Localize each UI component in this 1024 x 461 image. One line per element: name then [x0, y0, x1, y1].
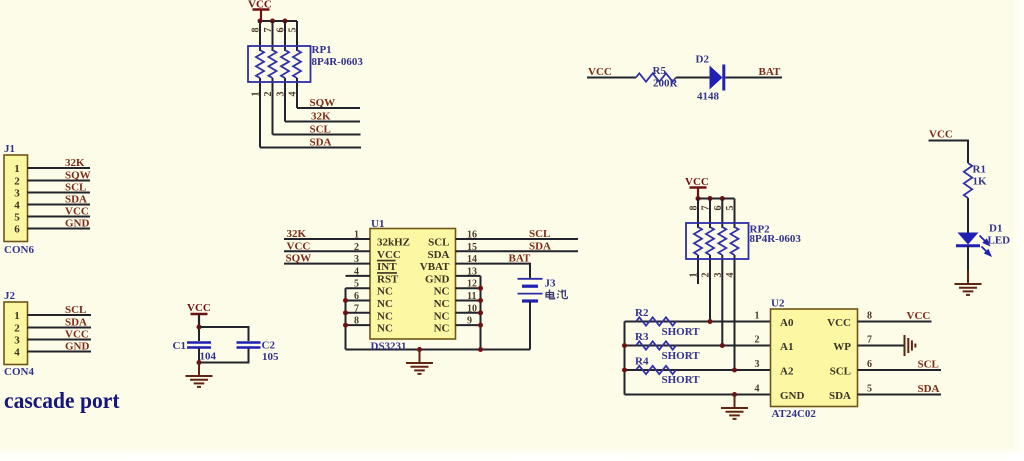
- wire R1 to D1: [967, 198, 969, 233]
- junction dot U2 ground attach: [732, 392, 737, 397]
- svg-text:BAT: BAT: [759, 66, 781, 78]
- wire U1 pin7: [346, 312, 371, 314]
- svg-text:SCL: SCL: [830, 366, 851, 378]
- svg-text:NC: NC: [377, 310, 393, 322]
- svg-text:NC: NC: [377, 323, 393, 335]
- svg-text:11: 11: [467, 291, 476, 302]
- svg-text:cascade port: cascade port: [4, 388, 120, 413]
- ground rotated (U2 WP): [905, 335, 916, 356]
- junction dot U1 bottom right bus: [478, 347, 483, 352]
- svg-text:6: 6: [713, 206, 724, 211]
- junction dots RP2 rail: [696, 196, 725, 201]
- svg-text:8P4R-0603: 8P4R-0603: [312, 56, 364, 68]
- resistor R2: [636, 317, 676, 325]
- svg-text:SDA: SDA: [529, 240, 551, 252]
- svg-text:7: 7: [263, 28, 274, 33]
- svg-text:VCC: VCC: [65, 329, 89, 341]
- svg-text:32K: 32K: [65, 157, 85, 169]
- svg-text:SDA: SDA: [829, 390, 851, 402]
- svg-text:RP1: RP1: [312, 44, 332, 56]
- resistor R4: [636, 366, 676, 374]
- svg-text:NC: NC: [434, 298, 450, 310]
- wire 32K (RP1): [285, 121, 360, 123]
- wire J2 pin2: [28, 327, 92, 329]
- white fade right edge: [1010, 0, 1024, 461]
- svg-text:NC: NC: [377, 286, 393, 298]
- svg-text:5: 5: [14, 212, 20, 224]
- IC U1 body: [370, 229, 456, 340]
- ground (D1): [955, 271, 982, 295]
- junction dots U1 right NC bus: [478, 286, 483, 328]
- svg-text:VBAT: VBAT: [420, 261, 450, 273]
- wire RP1 pin5 vertical: [296, 21, 298, 108]
- svg-text:7: 7: [354, 303, 359, 314]
- capacitor C2: [237, 343, 261, 348]
- svg-text:104: 104: [200, 351, 217, 363]
- wire U1 right NC bus vertical: [480, 276, 482, 350]
- connector J1 body: [4, 155, 28, 242]
- svg-text:SQW: SQW: [65, 170, 91, 182]
- battery J3: [518, 279, 543, 302]
- svg-text:DS3231: DS3231: [371, 341, 407, 353]
- svg-text:CON6: CON6: [4, 244, 34, 256]
- wire C1 top to C2 branch: [199, 327, 249, 341]
- wire VCC to R5: [587, 77, 636, 79]
- power port VCC (RP1): [248, 0, 272, 20]
- pin names U2 right column: [827, 317, 851, 402]
- wire U1 pin9: [456, 324, 481, 326]
- wire U1 pin12: [456, 287, 481, 289]
- svg-text:32K: 32K: [287, 228, 307, 240]
- svg-text:SHORT: SHORT: [662, 326, 701, 338]
- junction dot RP2 pin6 to R3 row: [720, 343, 725, 348]
- svg-text:14: 14: [467, 254, 477, 265]
- wire J2 pin4: [28, 351, 92, 353]
- svg-text:4: 4: [288, 92, 299, 97]
- wire RP1 pin8 vertical: [259, 21, 261, 148]
- svg-text:R5: R5: [653, 65, 667, 77]
- svg-text:8: 8: [867, 311, 872, 322]
- svg-text:4148: 4148: [697, 91, 720, 103]
- wire J1 pin2: [28, 180, 91, 182]
- svg-text:VCC: VCC: [929, 129, 953, 141]
- pin numbers RP2 bottom 1 2 3 4: [689, 273, 737, 278]
- svg-text:R3: R3: [635, 331, 649, 343]
- wire J2 pin3: [28, 339, 92, 341]
- wire RP2 pin5 vertical: [734, 199, 736, 371]
- svg-text:VCC: VCC: [827, 317, 851, 329]
- svg-text:6: 6: [276, 28, 287, 33]
- svg-text:2: 2: [14, 176, 20, 188]
- svg-text:J3: J3: [545, 278, 557, 290]
- svg-text:8: 8: [689, 206, 700, 211]
- wire U1 pin15: [456, 250, 579, 252]
- svg-text:7: 7: [701, 206, 712, 211]
- svg-text:16: 16: [467, 230, 477, 241]
- svg-text:LED: LED: [988, 235, 1011, 247]
- ground (C1): [186, 363, 213, 387]
- resistor RP2 element b: [706, 227, 714, 255]
- svg-text:VCC: VCC: [287, 240, 311, 252]
- LED D1: [956, 233, 990, 256]
- svg-text:15: 15: [467, 242, 477, 253]
- pin numbers RP1 bottom 1 2 3 4: [251, 92, 299, 97]
- wire C2 bottom loop: [199, 349, 249, 363]
- svg-text:4: 4: [725, 273, 736, 278]
- wire VCC rail RP2: [698, 198, 735, 200]
- wire U1 pin11: [456, 300, 481, 302]
- wire VCC to R1: [929, 141, 969, 164]
- svg-text:9: 9: [467, 316, 472, 327]
- svg-text:1: 1: [354, 230, 359, 241]
- wire U1 pin8: [346, 324, 371, 326]
- svg-text:R4: R4: [635, 356, 649, 368]
- wire D1 to ground: [967, 246, 969, 271]
- IC U2 body: [771, 309, 858, 407]
- wire D2 to BAT: [725, 77, 782, 79]
- svg-text:SCL: SCL: [65, 182, 86, 194]
- junction dots U1 left NC bus: [343, 298, 348, 328]
- svg-text:SDA: SDA: [65, 194, 87, 206]
- wire RP1 pin6 vertical: [284, 21, 286, 122]
- wire VCC to C1: [198, 314, 200, 341]
- svg-text:1: 1: [755, 311, 760, 322]
- svg-text:NC: NC: [434, 286, 450, 298]
- wire GND row to U2 pin4: [625, 394, 771, 396]
- wire U2 pin6: [858, 369, 942, 371]
- resistor RP2 element d: [731, 227, 739, 255]
- svg-text:SDA: SDA: [918, 383, 940, 395]
- junction dot C1 top: [197, 325, 202, 330]
- overbar RST (U1): [377, 272, 397, 274]
- svg-text:5: 5: [867, 384, 872, 395]
- svg-text:R2: R2: [635, 307, 649, 319]
- wire U2 pin5: [858, 394, 942, 396]
- wire U2 pin7: [858, 345, 904, 347]
- svg-text:13: 13: [467, 266, 477, 277]
- pin names U1 right column: [420, 237, 450, 335]
- svg-text:3: 3: [354, 254, 359, 265]
- svg-text:GND: GND: [780, 390, 805, 402]
- svg-text:5: 5: [288, 28, 299, 33]
- svg-text:1: 1: [14, 163, 20, 175]
- svg-text:105: 105: [262, 351, 279, 363]
- svg-text:AT24C02: AT24C02: [772, 408, 817, 420]
- svg-text:3: 3: [14, 188, 20, 200]
- svg-text:3: 3: [14, 335, 20, 347]
- pin numbers J1 1-6: [14, 163, 20, 236]
- svg-text:2: 2: [701, 273, 712, 278]
- wire C1 bottom: [198, 349, 200, 363]
- wire J1 pin5: [28, 216, 91, 218]
- svg-text:8: 8: [251, 28, 262, 33]
- wire RP2 pin7 vertical: [709, 199, 711, 322]
- svg-text:R1: R1: [973, 164, 986, 176]
- svg-text:NC: NC: [434, 310, 450, 322]
- pin numbers RP2 top 8 7 6 5: [689, 206, 737, 211]
- wire U2 pin8: [858, 321, 932, 323]
- resistor RP1 element d: [293, 50, 301, 78]
- svg-text:3: 3: [713, 273, 724, 278]
- svg-text:SHORT: SHORT: [662, 374, 701, 386]
- resistor R5: [636, 73, 676, 81]
- svg-text:C2: C2: [262, 340, 276, 352]
- resistor R3: [636, 341, 676, 349]
- power port VCC (C1): [187, 302, 211, 325]
- svg-text:GND: GND: [65, 341, 90, 353]
- svg-text:8: 8: [354, 316, 359, 327]
- svg-text:200R: 200R: [653, 78, 679, 90]
- wire U1 ground bus bottom: [346, 349, 531, 351]
- svg-text:6: 6: [354, 291, 359, 302]
- svg-text:D2: D2: [696, 54, 710, 66]
- resistor RP1 element b: [269, 50, 277, 78]
- svg-text:J2: J2: [4, 290, 16, 302]
- svg-text:GND: GND: [65, 218, 90, 230]
- svg-text:3: 3: [276, 92, 287, 97]
- svg-text:C1: C1: [173, 340, 186, 352]
- wire J1 pin6: [28, 228, 91, 230]
- resistor pack RP1 box: [248, 46, 311, 82]
- diode D2: [710, 65, 724, 91]
- svg-text:NC: NC: [434, 323, 450, 335]
- wire J1 pin3: [28, 192, 91, 194]
- wire R4 row: [625, 369, 771, 371]
- svg-text:SDA: SDA: [65, 317, 87, 329]
- wire SDA (RP1): [260, 147, 361, 149]
- white fade bottom edge: [0, 448, 1024, 461]
- svg-text:VCC: VCC: [65, 206, 89, 218]
- junction dot U1 ground attach: [417, 347, 422, 352]
- wire R3 row: [625, 345, 771, 347]
- svg-text:4: 4: [14, 200, 20, 212]
- svg-text:1K: 1K: [973, 176, 988, 188]
- ground (U2): [721, 395, 748, 419]
- svg-text:U2: U2: [771, 298, 785, 310]
- svg-text:6: 6: [14, 224, 20, 236]
- wire R5 to D2: [676, 77, 710, 79]
- wire J1 pin4: [28, 204, 91, 206]
- svg-text:INT: INT: [377, 261, 397, 273]
- wire U1 pin13: [456, 275, 481, 277]
- svg-text:J1: J1: [4, 143, 15, 155]
- capacitor C1: [187, 343, 211, 348]
- svg-text:2: 2: [354, 242, 359, 253]
- svg-text:VCC: VCC: [187, 302, 211, 314]
- wire U1 pin10: [456, 312, 481, 314]
- resistor RP2 element a: [694, 227, 702, 255]
- svg-text:32kHZ: 32kHZ: [377, 237, 410, 249]
- svg-text:SCL: SCL: [65, 304, 86, 316]
- svg-text:1: 1: [689, 273, 700, 278]
- svg-text:7: 7: [867, 335, 872, 346]
- junction dot strap bus R3: [622, 343, 627, 348]
- svg-text:NC: NC: [377, 298, 393, 310]
- pin numbers RP1 top 8 7 6 5: [251, 28, 299, 33]
- svg-text:A2: A2: [780, 366, 794, 378]
- wire VCC rail RP1: [260, 20, 297, 22]
- ground (U1): [406, 350, 433, 374]
- svg-text:VCC: VCC: [377, 249, 401, 261]
- wire J2 pin1: [28, 314, 92, 316]
- junction dot RP2 pin5 to R4 row: [732, 368, 737, 373]
- svg-text:10: 10: [467, 303, 477, 314]
- resistor pack RP2 box: [686, 223, 749, 259]
- pin names U2 left column: [780, 317, 805, 402]
- resistor R1: [964, 163, 972, 198]
- svg-text:1: 1: [251, 92, 262, 97]
- pin names U1 left column: [377, 237, 410, 335]
- svg-text:5: 5: [725, 206, 736, 211]
- overbar INT (U1): [377, 260, 396, 262]
- svg-text:2: 2: [263, 92, 274, 97]
- svg-text:6: 6: [867, 359, 872, 370]
- svg-text:SQW: SQW: [286, 253, 312, 265]
- wire RP2 pin6 vertical: [721, 199, 723, 346]
- resistor RP1 element a: [256, 50, 264, 78]
- svg-text:BAT: BAT: [509, 253, 531, 265]
- resistor RP1 element c: [281, 50, 289, 78]
- svg-text:3: 3: [755, 359, 760, 370]
- wire SQW (RP1): [297, 107, 360, 109]
- junction dot RP2 pin7 to R2 row: [708, 319, 713, 324]
- svg-text:4: 4: [354, 266, 359, 277]
- svg-text:A0: A0: [780, 317, 794, 329]
- svg-text:2: 2: [755, 335, 760, 346]
- svg-text:A1: A1: [780, 341, 793, 353]
- svg-text:SDA: SDA: [427, 249, 449, 261]
- wire U1 pin5: [346, 287, 371, 289]
- svg-text:RST: RST: [377, 273, 399, 285]
- wire U1 left NC bus vertical: [345, 288, 347, 349]
- connector J2 body: [4, 302, 28, 365]
- svg-text:VCC: VCC: [907, 310, 931, 322]
- svg-text:VCC: VCC: [685, 176, 709, 188]
- junction dots RP1 rail: [258, 19, 288, 24]
- wire U1 pin14 to battery: [456, 264, 531, 279]
- value battery hanzi (J3): [546, 290, 567, 299]
- pin numbers J2 1-4: [14, 310, 20, 359]
- svg-text:5: 5: [354, 279, 359, 290]
- svg-text:SCL: SCL: [529, 228, 550, 240]
- junction dot C1 bottom: [197, 360, 202, 365]
- wire U1 pin16: [456, 238, 579, 240]
- svg-text:SCL: SCL: [918, 359, 939, 371]
- wire battery J3 bottom: [529, 301, 531, 350]
- wire U1 pin6: [346, 300, 371, 302]
- svg-text:2: 2: [14, 323, 20, 335]
- svg-text:SHORT: SHORT: [662, 350, 701, 362]
- svg-text:SCL: SCL: [428, 237, 449, 249]
- svg-text:1: 1: [14, 310, 20, 322]
- wire strap bus vertical left: [624, 322, 626, 395]
- svg-text:VCC: VCC: [588, 66, 612, 78]
- svg-text:CON4: CON4: [4, 366, 34, 378]
- wire U1 pin1: [284, 238, 370, 240]
- resistor RP2 element c: [718, 227, 726, 255]
- wire SCL (RP1): [273, 134, 361, 136]
- wire R2 row: [625, 321, 771, 323]
- wire RP2 pin8 vertical: [697, 199, 699, 285]
- svg-text:4: 4: [14, 347, 20, 359]
- wire U1 pin2: [284, 250, 370, 252]
- wire RP1 pin7 vertical: [272, 21, 274, 135]
- wire U1 pin3: [284, 263, 370, 265]
- svg-text:WP: WP: [833, 341, 851, 353]
- svg-text:D1: D1: [989, 223, 1002, 235]
- junction dot strap bus R4: [622, 368, 627, 373]
- power port VCC (RP2): [685, 176, 709, 198]
- svg-text:GND: GND: [425, 273, 450, 285]
- wire U1 pin4: [346, 275, 371, 277]
- svg-text:12: 12: [467, 279, 477, 290]
- wire J1 pin1: [28, 167, 91, 169]
- svg-text:8P4R-0603: 8P4R-0603: [750, 233, 802, 245]
- svg-text:4: 4: [755, 384, 760, 395]
